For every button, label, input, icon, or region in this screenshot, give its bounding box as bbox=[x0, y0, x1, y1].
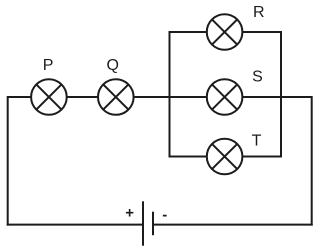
svg-text:R: R bbox=[253, 4, 265, 21]
svg-text:S: S bbox=[252, 69, 263, 86]
svg-text:Q: Q bbox=[107, 57, 119, 74]
svg-text:+: + bbox=[125, 205, 134, 222]
svg-text:-: - bbox=[162, 206, 167, 223]
svg-text:P: P bbox=[43, 57, 54, 74]
svg-text:T: T bbox=[252, 133, 262, 150]
